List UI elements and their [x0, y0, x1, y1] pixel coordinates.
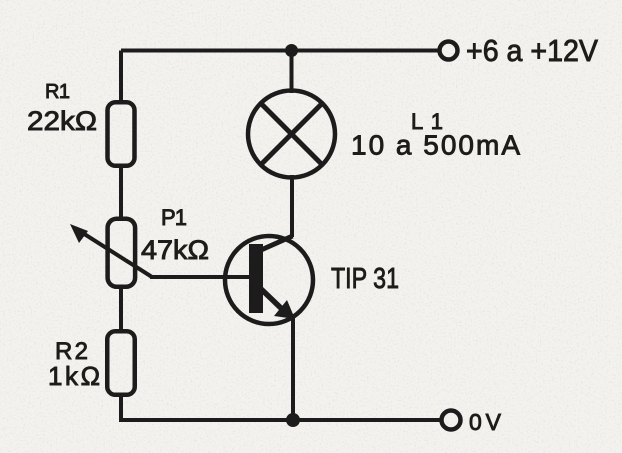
junction node top: [285, 44, 298, 57]
resistor R2: [107, 331, 135, 395]
wire lamp top: [290, 51, 294, 94]
wire left vertical upper: [119, 51, 123, 105]
wire R1 to P1: [119, 165, 123, 220]
junction node bottom: [286, 413, 300, 427]
transistor Q1 TIP31: [225, 236, 313, 324]
svg-text:10 a 500mA: 10 a 500mA: [351, 130, 520, 161]
svg-text:0V: 0V: [469, 409, 502, 435]
svg-text:P1: P1: [161, 205, 187, 230]
terminal +V: [440, 42, 458, 60]
wire lamp to collector: [290, 175, 294, 237]
potentiometer P1: [70, 219, 152, 287]
resistor R1: [108, 102, 135, 166]
wire emitter down: [291, 318, 295, 421]
wire base: [150, 275, 250, 279]
svg-text:R1: R1: [45, 81, 70, 103]
lamp L1: [248, 91, 335, 178]
svg-text:22kΩ: 22kΩ: [27, 106, 97, 136]
svg-text:47kΩ: 47kΩ: [141, 235, 209, 265]
wire top rail: [121, 49, 438, 53]
wire P1 to R2: [119, 286, 123, 333]
wire bottom rail: [119, 418, 441, 422]
svg-text:+6 a +12V: +6 a +12V: [466, 33, 598, 68]
svg-text:TIP 31: TIP 31: [331, 263, 399, 295]
wire left vertical lower: [119, 394, 123, 422]
terminal 0V: [442, 411, 461, 430]
svg-text:1kΩ: 1kΩ: [48, 361, 100, 391]
